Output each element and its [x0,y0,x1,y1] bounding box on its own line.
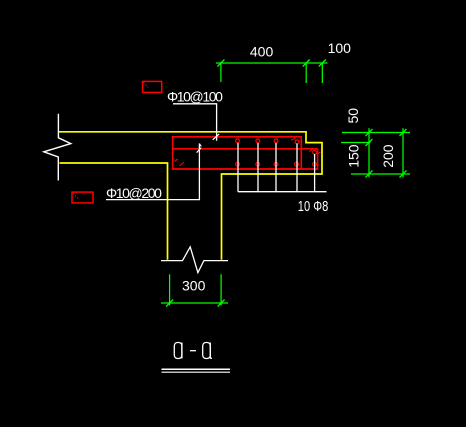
slab top outline (yellow) with beam step profile [58,132,322,260]
legend symbol rect top (red) for slab top mesh [143,81,162,92]
stirrup leg white line 2 [257,143,259,192]
svg-text:300: 300 [182,277,206,293]
bottom-left anchorage hatch slashes (red) [174,159,184,166]
column break line (white zigzag) [161,247,228,273]
stirrup inner horizontal line (red) [173,148,318,150]
stirrup leg white line 3 [275,143,277,192]
right dimension chain 50/150/200 (green) [341,128,410,177]
section title glyph a (right) [203,343,212,359]
slab bottom outline (yellow) turning into column left edge [60,163,168,260]
svg-text:50: 50 [345,108,361,124]
stirrup leg white line 1 [237,143,239,192]
bottom rebar circle 5 [313,162,317,166]
top rebar circle 2 [256,139,260,143]
svg-text:150: 150 [345,144,361,168]
svg-text:100: 100 [328,40,352,56]
svg-text:200: 200 [380,144,396,168]
bottom rebar circle 4 [295,162,299,166]
dimension 400/100 line (green) [216,60,328,84]
step box right edge small hatch tick (red) [317,152,321,155]
section title dash [190,350,196,352]
step corner rebar circle with hatch [309,149,316,154]
stirrup step box right edge (red) [173,149,318,169]
bottom red line extension to step [301,168,317,170]
dimension 300 (green) [161,274,228,306]
leader for phi10@100 label (white) [173,104,219,141]
top rebar circle 1 [236,139,240,143]
stirrup leg white line 5 [314,154,316,192]
stirrup leg white line 4 [296,144,298,192]
bottom rebar circle 1 [236,162,240,166]
svg-text:10 Φ8: 10 Φ8 [298,197,328,214]
legend symbol rect bottom (red) for slab bottom mesh [72,192,93,203]
stirrup outer box (red) [173,137,302,169]
bottom rebar circle 2 [256,162,260,166]
left edge break line (white zigzag) [44,114,71,181]
stirrup legs bus line to 10phi8 label [238,191,327,193]
svg-text:Φ10@200: Φ10@200 [106,185,162,201]
leader for phi10@200 label (white) [106,144,201,200]
section title glyph a (left) [174,343,182,359]
top rebar circle 3 [274,139,278,143]
svg-text:400: 400 [250,44,274,60]
top corner rebar circle with hatch [291,138,299,144]
section title double underline [162,369,231,372]
svg-text:Φ10@100: Φ10@100 [167,89,223,105]
bottom rebar circle 3 [274,162,278,166]
